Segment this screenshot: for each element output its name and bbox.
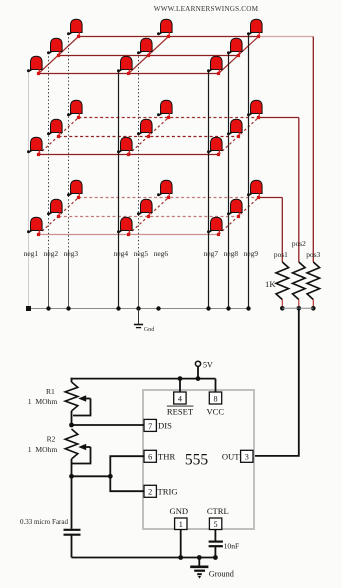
label R2 value 1 MOhm [28,445,58,454]
node ground junction [197,555,202,560]
LED D25 (layer 3, row 3, col 1) [67,180,82,199]
svg-text:4: 4 [178,394,182,403]
wire top layer (pos3) back row anode line [79,36,259,38]
LED D20 (layer 3, row 1, col 2) [117,217,132,236]
wire middle layer (pos2) group 1 diagonal [39,118,79,155]
LED D13 (layer 2, row 2, col 1) [47,119,62,138]
label neg1 [24,249,39,258]
node 5V-R1 junction [196,376,201,381]
wire neg5 cathode column [138,53,140,309]
svg-text:1 MOhm: 1 MOhm [28,445,58,454]
wire resistor bottom bus [282,307,313,309]
pin 2 TRIG [144,485,178,497]
wire top layer (pos3) front row anode line [39,73,219,75]
svg-text:VCC: VCC [206,407,224,417]
wire middle layer (pos2) group 2 diagonal [129,118,169,155]
label Ground [209,569,234,578]
svg-text:neg3: neg3 [64,249,79,258]
wire pos1 vertical drop to resistor [281,198,283,263]
svg-text:10nF: 10nF [224,542,240,551]
resistor RP3 (pos3) 1K [307,262,320,306]
LED D10 (layer 2, row 1, col 1) [27,137,42,156]
wire top layer (pos3) back row extension to pos drop [259,36,314,38]
wire bottom layer (pos1) back row anode line [79,197,259,199]
label neg8 [224,249,239,258]
svg-text:neg9: neg9 [244,249,259,258]
svg-text:8: 8 [213,394,217,403]
LED D14 (layer 2, row 2, col 2) [137,119,152,138]
label pos2 [292,239,306,248]
LED D22 (layer 3, row 2, col 1) [47,199,62,218]
wire bottom layer (pos1) group 2 diagonal [129,198,169,235]
svg-text:neg8: neg8 [224,249,239,258]
svg-text:3: 3 [245,453,249,462]
wire pos2 vertical drop to resistor [298,118,300,263]
wire TRIG connection [110,476,144,491]
wire neg4 cathode column [118,71,120,309]
wire neg1 cathode column [28,71,30,309]
svg-text:2: 2 [148,488,152,497]
svg-text:pos1: pos1 [274,250,288,259]
svg-text:OUT: OUT [222,452,240,462]
resistor R1 1 MOhm [65,378,90,425]
wire bottom layer (pos1) front row anode line [39,234,219,236]
LED D18 (layer 2, row 3, col 3) [247,100,262,119]
power 5V terminal [195,361,213,370]
label neg3 [64,249,79,258]
title text [154,5,259,13]
svg-text:5V: 5V [203,361,213,370]
wire cathode ground bus [29,308,250,310]
label neg6 [154,249,169,258]
LED D6 (layer 1, row 2, col 3) [227,38,242,57]
LED D26 (layer 3, row 3, col 2) [157,180,172,199]
svg-text:1K: 1K [265,279,276,289]
wire pos3 vertical drop to resistor [312,37,314,263]
label R2 [47,435,56,444]
wire neg9 cathode column [248,34,250,309]
label neg5 [134,249,149,258]
svg-text:pos2: pos2 [292,239,306,248]
LED D27 (layer 3, row 3, col 3) [247,180,262,199]
svg-text:neg1: neg1 [24,249,39,258]
svg-text:neg6: neg6 [154,249,169,258]
label neg7 [204,249,219,258]
svg-text:7: 7 [148,422,152,431]
svg-text:neg5: neg5 [134,249,149,258]
wire GND pin to bus [180,530,182,558]
label pos1 [274,250,288,259]
label C1 value 0.33 micro Farad [20,518,69,526]
LED D16 (layer 2, row 3, col 1) [67,100,82,119]
label C2 value 10nF [224,542,240,551]
node neg7 bus junction [206,306,210,310]
svg-text:neg4: neg4 [114,249,129,258]
svg-text:DIS: DIS [158,421,172,431]
wire top layer (pos3) group 2 diagonal [129,37,169,74]
wire bottom layer (pos1) group 3 diagonal [219,198,259,235]
node pos2 resistor bottom junction [297,306,302,311]
svg-text:neg2: neg2 [44,249,59,258]
svg-text:TRIG: TRIG [158,487,178,497]
label pos3 [306,250,320,259]
label R1 [46,387,55,396]
LED D7 (layer 1, row 3, col 1) [67,19,82,38]
resistor RP1 (pos1) 1K [276,262,289,306]
ground symbol [190,558,208,579]
ground Gnd symbol on cathode bus [134,309,155,334]
node bus left terminal [26,306,31,311]
svg-text:1 MOhm: 1 MOhm [28,397,58,406]
wire bottom ground bus [72,557,216,559]
LED D21 (layer 3, row 1, col 3) [207,217,222,236]
node neg3 bus junction [66,306,70,310]
wire neg3 cathode column [68,34,70,309]
LED D3 (layer 1, row 1, col 3) [207,56,222,75]
node C2 bus junction [213,555,218,560]
svg-text:neg7: neg7 [204,249,219,258]
wire bottom layer (pos1) group 1 diagonal [39,198,79,235]
node R1-R2-DIS junction [69,423,74,428]
pin 5 CTRL [207,506,229,530]
node THR-TRIG junction [108,474,113,479]
svg-text:555: 555 [185,452,209,469]
svg-text:0.33 micro Farad: 0.33 micro Farad [20,518,69,526]
node neg9 bus junction [246,306,250,310]
wire THR connection [110,456,144,476]
svg-text:Ground: Ground [209,569,234,578]
node neg5 bus junction [136,306,140,310]
svg-text:R1: R1 [46,387,55,396]
LED D2 (layer 1, row 1, col 2) [117,56,132,75]
node neg6 bus junction [156,306,160,310]
svg-text:GND: GND [169,506,188,516]
wire neg2 cathode column [48,53,50,309]
node pos3 resistor bottom junction [311,306,316,311]
svg-text:1: 1 [179,520,183,529]
label neg2 [44,249,59,258]
wire middle layer (pos2) front row anode line [39,154,219,156]
svg-text:R2: R2 [47,435,56,444]
wire 555 output to LED cube resistors [253,308,299,456]
pin 3 OUT [222,450,253,462]
LED D5 (layer 1, row 2, col 2) [137,38,152,57]
wire neg8 cathode column [228,53,230,309]
wire 5V rail [71,366,216,392]
label R1 value 1 MOhm [28,397,58,406]
wire bottom layer (pos1) middle row anode line [59,216,239,218]
LED D23 (layer 3, row 2, col 2) [137,199,152,218]
node pos1 resistor bottom junction [280,306,285,311]
svg-text:THR: THR [158,452,175,462]
pin 1 GND [169,506,188,530]
LED D15 (layer 2, row 2, col 3) [227,119,242,138]
LED D19 (layer 3, row 1, col 1) [27,217,42,236]
wire top layer (pos3) group 1 diagonal [39,37,79,74]
wire top layer (pos3) middle row anode line [59,55,239,57]
node neg2 bus junction [46,306,50,310]
pin 4 RESET [167,392,194,417]
LED D9 (layer 1, row 3, col 3) [247,19,262,38]
svg-text:RESET: RESET [167,407,194,417]
wire middle layer (pos2) back row anode line [79,117,259,119]
svg-text:6: 6 [148,453,152,462]
label neg9 [244,249,259,258]
node GND pin junction [178,555,183,560]
LED D1 (layer 1, row 1, col 1) [27,56,42,75]
node 5V-pin4 junction [178,376,183,381]
LED D8 (layer 1, row 3, col 2) [157,19,172,38]
wire middle layer (pos2) group 3 diagonal [219,118,259,155]
svg-text:WWW.LEARNERSWINGS.COM: WWW.LEARNERSWINGS.COM [154,5,259,13]
resistor R2 1 MOhm [65,429,90,476]
LED D17 (layer 2, row 3, col 2) [157,100,172,119]
wire R2 bottom to THR/TRIG junction [72,475,111,477]
wire neg7 cathode column [208,71,210,309]
wire middle layer (pos2) back row extension to pos drop [259,117,299,119]
label neg4 [114,249,129,258]
svg-text:5: 5 [214,520,218,529]
wire bottom layer (pos1) back row extension to pos drop [259,197,283,199]
label 1K [265,279,276,289]
svg-text:CTRL: CTRL [207,506,229,516]
svg-text:Gnd: Gnd [144,326,156,333]
node R2-C1 junction [69,474,74,479]
svg-text:pos3: pos3 [306,250,320,259]
node neg8 bus junction [226,306,230,310]
LED D4 (layer 1, row 2, col 1) [47,38,62,57]
capacitor C1 0.33 micro Farad [64,476,81,557]
capacitor C2 10nF on CTRL [209,530,223,558]
pin 7 DIS [144,419,172,431]
pin 6 THR [144,450,175,462]
LED D12 (layer 2, row 1, col 3) [207,137,222,156]
LED D24 (layer 3, row 2, col 3) [227,199,242,218]
node neg4 bus junction [116,306,120,310]
wire middle layer (pos2) middle row anode line [59,136,239,138]
wire DIS to junction [72,424,145,426]
resistor RP2 (pos2) 1K [293,262,306,306]
wire top layer (pos3) group 3 diagonal [219,37,259,74]
pin 8 VCC [206,392,224,417]
LED D11 (layer 2, row 1, col 2) [117,137,132,156]
op-amp/timer IC U1 555 body [143,390,254,529]
